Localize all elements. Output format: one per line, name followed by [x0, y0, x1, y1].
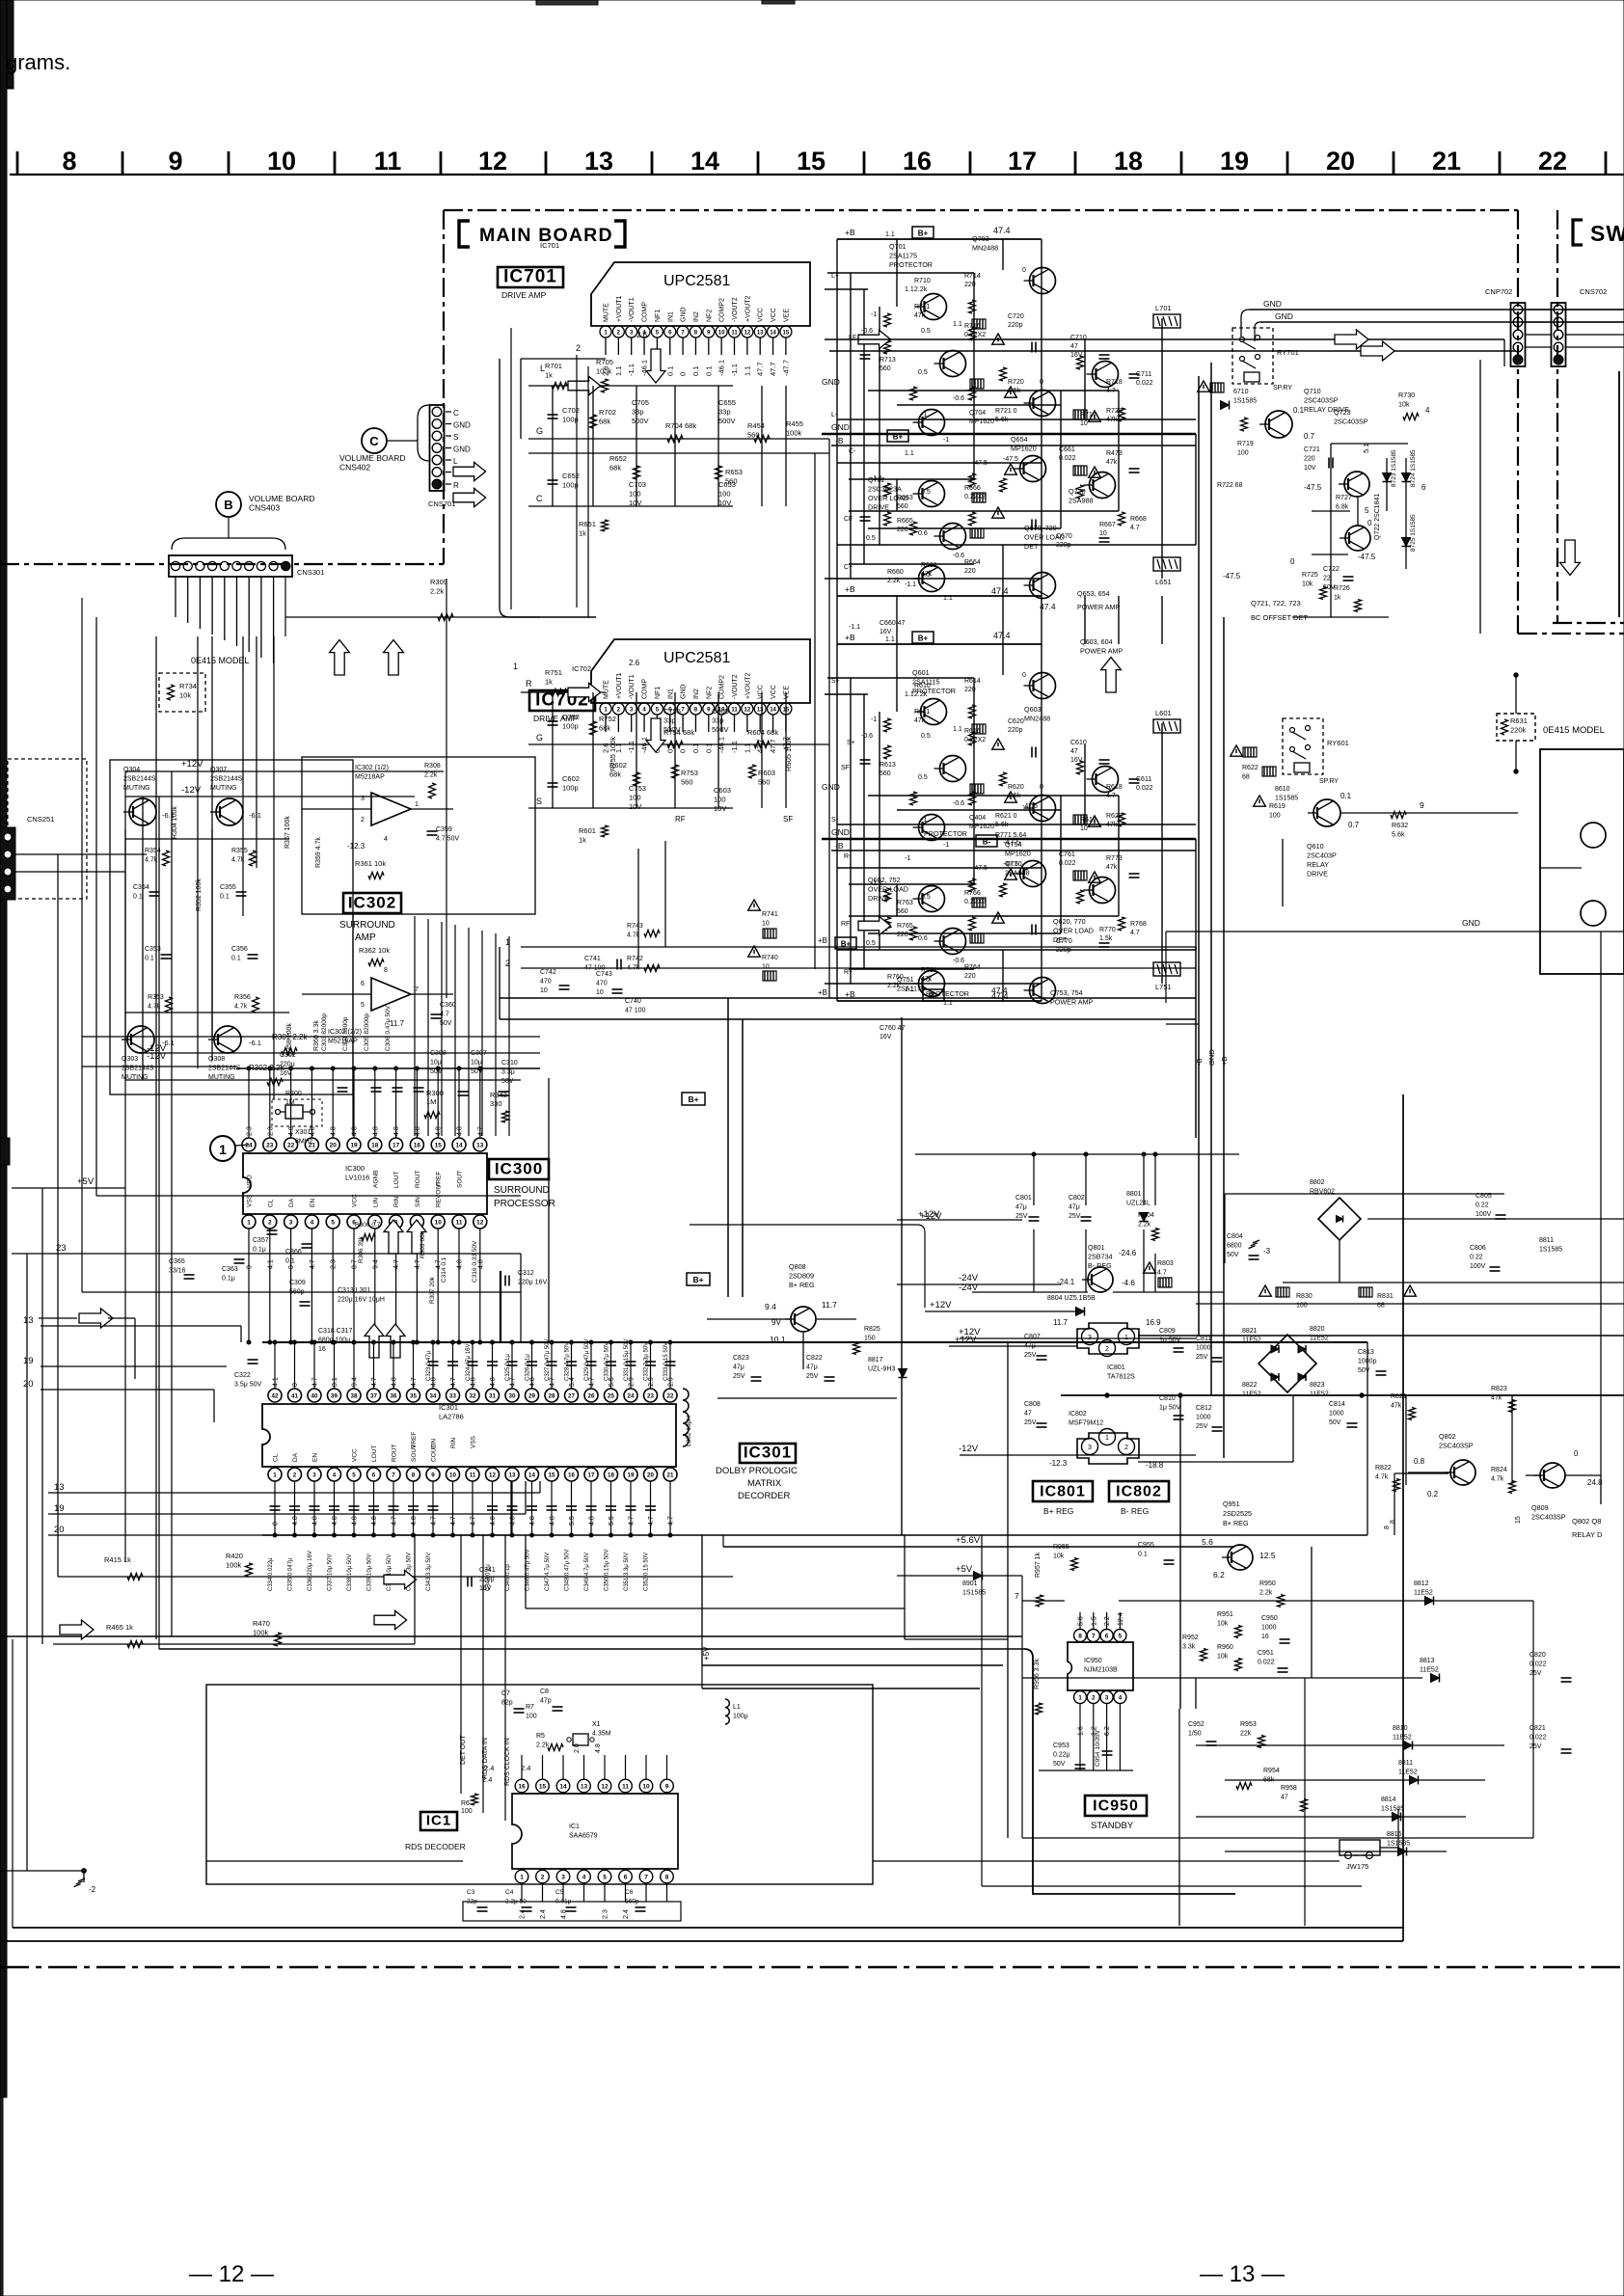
svg-text:VOLUME BOARD: VOLUME BOARD	[249, 494, 315, 503]
svg-text:4: 4	[384, 836, 388, 843]
svg-text:50V: 50V	[1227, 1252, 1239, 1258]
svg-text:15: 15	[797, 147, 826, 176]
svg-text:8724 1S1585: 8724 1S1585	[1410, 449, 1417, 487]
svg-text:6: 6	[361, 981, 365, 987]
svg-text:4.7: 4.7	[431, 1516, 438, 1526]
svg-text:0.22X2: 0.22X2	[964, 737, 986, 743]
svg-text:47p: 47p	[540, 1698, 552, 1705]
svg-text:28: 28	[549, 1392, 555, 1399]
svg-text:MUTE: MUTE	[604, 680, 610, 699]
svg-text:MN2488: MN2488	[1024, 715, 1050, 723]
svg-text:UPC2581: UPC2581	[663, 273, 730, 289]
svg-text:C338 10μ 50V: C338 10μ 50V	[347, 1554, 353, 1591]
svg-text:C721: C721	[1304, 446, 1320, 453]
svg-text:-0.6: -0.6	[953, 800, 964, 807]
svg-text:9.4: 9.4	[765, 1302, 776, 1311]
svg-text:R622: R622	[1242, 765, 1259, 771]
svg-text:16: 16	[318, 1346, 326, 1353]
svg-text:6710: 6710	[1233, 389, 1249, 395]
svg-text:5.1: 5.1	[1362, 444, 1370, 453]
svg-text:4.8: 4.8	[589, 1516, 596, 1526]
svg-text:12: 12	[744, 331, 751, 337]
svg-text:10: 10	[718, 331, 725, 337]
svg-text:C339 10μ 50V: C339 10μ 50V	[367, 1554, 373, 1591]
svg-text:C952: C952	[1188, 1721, 1204, 1728]
svg-text:10: 10	[267, 147, 296, 176]
svg-text:C822: C822	[806, 1355, 823, 1362]
svg-text:R952: R952	[1182, 1634, 1199, 1641]
svg-text:R355: R355	[231, 848, 248, 854]
svg-text:R306 39k: R306 39k	[358, 1235, 365, 1263]
svg-text:6: 6	[1421, 483, 1426, 492]
svg-text:R722 68: R722 68	[1217, 482, 1243, 489]
svg-text:R713: R713	[880, 357, 896, 364]
svg-text:R743: R743	[627, 923, 643, 930]
svg-text:B+: B+	[918, 230, 929, 238]
svg-text:8812: 8812	[1414, 1580, 1429, 1587]
svg-text:4.7: 4.7	[310, 1259, 316, 1269]
svg-text:C951: C951	[1258, 1650, 1274, 1657]
svg-text:1M: 1M	[426, 1097, 436, 1106]
svg-text:1: 1	[520, 1875, 524, 1881]
svg-text:PROTECTOR: PROTECTOR	[889, 260, 933, 269]
svg-text:25V: 25V	[1015, 1213, 1028, 1220]
svg-text:Q802: Q802	[1439, 1432, 1456, 1441]
svg-text:1S1585: 1S1585	[1233, 398, 1257, 405]
svg-text:R308: R308	[424, 763, 441, 770]
svg-text:4.7k: 4.7k	[234, 1004, 248, 1011]
svg-text:68k: 68k	[609, 464, 621, 473]
svg-text:1μ 50V: 1μ 50V	[1159, 1405, 1181, 1412]
svg-text:C: C	[369, 434, 379, 448]
svg-text:-47.5: -47.5	[1022, 803, 1038, 810]
svg-text:-0.6: -0.6	[861, 733, 873, 740]
svg-text:2SC403SP: 2SC403SP	[1531, 1513, 1566, 1522]
svg-text:Q703: Q703	[972, 234, 989, 243]
svg-text:R357 100k: R357 100k	[284, 816, 291, 849]
svg-text:7: 7	[1015, 1591, 1019, 1601]
svg-text:16: 16	[518, 1784, 526, 1791]
svg-text:R360 3.3k: R360 3.3k	[313, 1020, 320, 1051]
svg-text:47 100: 47 100	[625, 1008, 646, 1014]
svg-text:IC950: IC950	[1093, 1798, 1139, 1815]
svg-text:4: 4	[311, 1219, 314, 1226]
svg-text:JW175: JW175	[1346, 1862, 1368, 1871]
svg-text:R760: R760	[887, 974, 904, 981]
svg-text:C753: C753	[629, 784, 646, 793]
svg-text:C711: C711	[1136, 371, 1151, 378]
svg-text:-1: -1	[871, 311, 877, 318]
svg-text:R603: R603	[758, 769, 775, 777]
svg-text:5: 5	[361, 1002, 365, 1009]
svg-text:R721 0: R721 0	[995, 408, 1017, 415]
svg-text:0: 0	[273, 1522, 280, 1526]
svg-text:GND: GND	[822, 377, 840, 387]
svg-text:0.022: 0.022	[1529, 1661, 1547, 1668]
svg-text:2.2k: 2.2k	[887, 983, 901, 989]
svg-text:+VOUT2: +VOUT2	[744, 295, 751, 322]
svg-text:LIN: LIN	[431, 1439, 438, 1448]
svg-text:CNP702: CNP702	[1485, 287, 1512, 296]
svg-text:GND: GND	[453, 446, 471, 454]
svg-text:8723 1S1585: 8723 1S1585	[1391, 449, 1397, 487]
svg-text:1000: 1000	[1196, 1415, 1211, 1421]
svg-text:33p: 33p	[712, 716, 724, 725]
svg-text:IC950: IC950	[1084, 1658, 1102, 1664]
svg-text:PROTECTOR: PROTECTOR	[924, 829, 967, 838]
svg-text:R309: R309	[430, 578, 447, 586]
svg-text:2.2k: 2.2k	[914, 286, 928, 293]
svg-text:0.1: 0.1	[1138, 1552, 1148, 1558]
svg-text:47.7: 47.7	[769, 362, 777, 376]
svg-text:47.4: 47.4	[991, 986, 1008, 995]
svg-text:4.8: 4.8	[331, 1126, 338, 1136]
svg-text:220: 220	[964, 568, 976, 575]
svg-text:C808: C808	[1024, 1401, 1041, 1408]
svg-text:4.7: 4.7	[450, 1377, 457, 1387]
svg-text:8815: 8815	[1387, 1831, 1402, 1838]
svg-text:B+: B+	[918, 635, 929, 643]
svg-text:B- REG: B- REG	[1121, 1506, 1149, 1516]
svg-text:R618: R618	[1106, 784, 1123, 791]
svg-text:6: 6	[1105, 1634, 1109, 1640]
svg-text:C337 10μ 50V: C337 10μ 50V	[328, 1554, 334, 1591]
svg-text:R720: R720	[1008, 379, 1024, 386]
svg-text:2SB2144S: 2SB2144S	[210, 776, 243, 783]
svg-text:1.1: 1.1	[905, 286, 914, 293]
svg-text:C741: C741	[584, 956, 601, 962]
svg-text:47μ: 47μ	[1069, 1204, 1080, 1211]
svg-text:22p: 22p	[467, 1899, 477, 1905]
svg-text:C: C	[453, 409, 459, 418]
svg-text:2SC3623A: 2SC3623A	[868, 485, 902, 494]
svg-text:4.8: 4.8	[371, 1516, 378, 1526]
svg-text:11E52: 11E52	[1414, 1590, 1433, 1597]
svg-text:C323 0.47μ: C323 0.47μ	[426, 1350, 432, 1381]
svg-text:CL: CL	[267, 1199, 274, 1207]
svg-text:C345 0.1μ: C345 0.1μ	[505, 1564, 511, 1591]
svg-text:LV1016: LV1016	[345, 1174, 369, 1182]
svg-text:0: 0	[1574, 1449, 1579, 1458]
svg-text:0.22μ: 0.22μ	[1053, 1752, 1070, 1759]
svg-text:18: 18	[1114, 147, 1143, 176]
svg-text:CL: CL	[273, 1453, 280, 1462]
svg-text:470: 470	[596, 981, 608, 987]
svg-text:220: 220	[897, 527, 908, 533]
svg-text:-0.6: -0.6	[861, 328, 873, 335]
svg-text:DRIVE AMP: DRIVE AMP	[501, 290, 547, 300]
svg-text:— 13 —: — 13 —	[1200, 2261, 1285, 2287]
svg-text:68k: 68k	[599, 724, 610, 733]
svg-text:4.7: 4.7	[415, 1259, 421, 1269]
svg-text:Q653, 654: Q653, 654	[1077, 589, 1110, 598]
svg-text:R667: R667	[1099, 522, 1116, 528]
svg-text:R605 100k: R605 100k	[784, 736, 793, 771]
svg-text:C955: C955	[1138, 1542, 1154, 1549]
svg-text:13: 13	[581, 1784, 588, 1791]
svg-text:4.7: 4.7	[1157, 1270, 1167, 1277]
svg-text:5: 5	[331, 1219, 335, 1226]
svg-text:+12V: +12V	[955, 1335, 977, 1345]
svg-text:1000: 1000	[1329, 1411, 1344, 1418]
svg-text:1: 1	[415, 801, 419, 808]
svg-text:C7: C7	[501, 1690, 510, 1697]
svg-text:C743: C743	[596, 971, 612, 978]
svg-text:R958: R958	[1281, 1785, 1297, 1792]
svg-text:IC1: IC1	[569, 1823, 580, 1830]
svg-text:47.4: 47.4	[993, 631, 1011, 640]
svg-text:1: 1	[1124, 1335, 1128, 1341]
svg-text:33p: 33p	[718, 408, 731, 417]
svg-text:C310: C310	[501, 1060, 518, 1067]
svg-text:C307: C307	[471, 1050, 487, 1057]
svg-text:14: 14	[770, 708, 776, 714]
svg-text:R665: R665	[897, 518, 913, 525]
svg-text:0.22X2: 0.22X2	[964, 494, 986, 500]
svg-text:DA: DA	[292, 1452, 299, 1462]
svg-text:R755 100k: R755 100k	[609, 736, 617, 771]
svg-text:C340 10μ 50V: C340 10μ 50V	[387, 1554, 392, 1591]
svg-text:R: R	[453, 481, 459, 490]
svg-text:19: 19	[1220, 147, 1249, 176]
svg-text:0: 0	[1040, 379, 1043, 386]
svg-text:R420: R420	[226, 1552, 243, 1560]
svg-text:0: 0	[247, 1265, 254, 1269]
svg-text:L1: L1	[733, 1704, 741, 1711]
svg-text:R773: R773	[1106, 855, 1123, 862]
svg-text:220: 220	[1304, 456, 1315, 463]
svg-text:Q304: Q304	[123, 767, 140, 773]
svg-text:8822: 8822	[1242, 1382, 1258, 1389]
svg-text:R356: R356	[234, 994, 251, 1001]
svg-text:R951: R951	[1217, 1611, 1233, 1618]
svg-text:RF: RF	[675, 815, 686, 824]
svg-text:11: 11	[731, 708, 738, 714]
svg-text:Q809: Q809	[1531, 1503, 1549, 1512]
svg-text:0.5: 0.5	[866, 940, 876, 947]
svg-text:33: 33	[449, 1392, 456, 1399]
svg-text:68k: 68k	[599, 418, 610, 426]
svg-text:10: 10	[596, 989, 604, 996]
svg-text:2SB734: 2SB734	[1088, 1253, 1113, 1261]
svg-text:COMP2: COMP2	[719, 675, 726, 699]
svg-text:L601: L601	[1155, 709, 1172, 717]
svg-text:41: 41	[291, 1392, 298, 1399]
svg-text:R352 100k: R352 100k	[196, 878, 203, 911]
svg-text:RELAY: RELAY	[1307, 860, 1329, 869]
svg-text:G: G	[536, 733, 543, 743]
svg-text:8811: 8811	[1398, 1760, 1413, 1767]
svg-text:220μ 16V: 220μ 16V	[518, 1280, 547, 1286]
svg-text:2.4: 2.4	[540, 1909, 547, 1919]
svg-text:C348 0.47μ 50V: C348 0.47μ 50V	[565, 1550, 571, 1592]
svg-text:C329 0.47μ 50V: C329 0.47μ 50V	[584, 1339, 590, 1382]
svg-text:10: 10	[642, 1784, 650, 1791]
svg-text:R823: R823	[1491, 1386, 1507, 1392]
svg-text:1.1: 1.1	[905, 450, 914, 457]
svg-text:0.5: 0.5	[918, 774, 928, 781]
svg-text:560: 560	[747, 431, 760, 440]
svg-text:-1.1: -1.1	[627, 364, 636, 376]
svg-text:R960: R960	[1217, 1644, 1233, 1651]
svg-text:MATRIX: MATRIX	[747, 1478, 782, 1489]
svg-text:C325 0.1μ: C325 0.1μ	[505, 1354, 511, 1381]
svg-text:-6.1: -6.1	[162, 811, 175, 820]
svg-text:12.4: 12.4	[1118, 1612, 1124, 1626]
svg-text:1.5k: 1.5k	[1008, 793, 1021, 799]
svg-text:2.3: 2.3	[267, 1126, 274, 1136]
svg-text:C752: C752	[562, 713, 580, 721]
svg-text:Q720: Q720	[1069, 487, 1086, 496]
svg-text:VREF: VREF	[411, 1432, 418, 1448]
svg-text:VCC: VCC	[352, 1448, 359, 1462]
svg-text:IC300: IC300	[495, 1160, 543, 1178]
svg-text:Q307: Q307	[210, 767, 227, 773]
svg-text:0.1: 0.1	[704, 366, 713, 376]
svg-text:220p: 220p	[1008, 727, 1023, 734]
svg-text:1k: 1k	[1334, 595, 1341, 602]
svg-text:C813: C813	[1358, 1349, 1374, 1356]
svg-text:R831: R831	[1377, 1293, 1394, 1300]
svg-text:3.5μ 50V: 3.5μ 50V	[234, 1382, 261, 1389]
svg-text:IC301: IC301	[439, 1403, 458, 1412]
svg-text:47k: 47k	[1391, 1403, 1402, 1410]
svg-text:16V: 16V	[880, 1034, 892, 1040]
svg-text:C5: C5	[555, 1889, 564, 1896]
svg-text:2.2k: 2.2k	[424, 772, 438, 779]
svg-text:C356: C356	[231, 946, 248, 953]
svg-text:R753: R753	[681, 769, 698, 777]
svg-text:6: 6	[372, 1472, 376, 1478]
svg-text:100p: 100p	[562, 481, 579, 490]
svg-text:470: 470	[540, 979, 552, 986]
svg-text:C357: C357	[253, 1237, 269, 1244]
svg-text:-1.1: -1.1	[871, 880, 882, 887]
svg-text:MUTE: MUTE	[604, 303, 610, 322]
svg-text:LA2786: LA2786	[439, 1413, 464, 1421]
svg-text:VEE: VEE	[783, 686, 790, 699]
svg-text:-1.1: -1.1	[730, 741, 739, 753]
svg-text:2.3: 2.3	[603, 1909, 609, 1919]
svg-text:-1.1: -1.1	[871, 475, 882, 482]
svg-text:27: 27	[568, 1392, 575, 1399]
svg-text:2.2k: 2.2k	[887, 578, 901, 584]
svg-text:C306 0.47μ 50V: C306 0.47μ 50V	[385, 1005, 392, 1051]
svg-text:C802: C802	[1069, 1195, 1085, 1202]
svg-text:C950: C950	[1261, 1615, 1278, 1622]
svg-text:10: 10	[449, 1472, 456, 1478]
svg-text:-46.1: -46.1	[640, 360, 649, 376]
svg-text:C322: C322	[234, 1372, 251, 1379]
svg-text:-6.1: -6.1	[249, 811, 261, 820]
svg-text:SW: SW	[1590, 221, 1624, 246]
svg-text:-1.1: -1.1	[627, 741, 636, 753]
svg-text:220p: 220p	[1056, 542, 1071, 549]
svg-text:S+: S+	[847, 740, 855, 746]
svg-text:8817: 8817	[868, 1357, 883, 1364]
svg-text:grams.: grams.	[6, 50, 70, 74]
svg-text:-B: -B	[835, 436, 844, 446]
svg-text:DRIVE: DRIVE	[868, 503, 889, 512]
svg-text:OVER LOAD: OVER LOAD	[1053, 927, 1094, 935]
svg-text:42: 42	[272, 1392, 279, 1399]
svg-text:31: 31	[489, 1392, 496, 1399]
svg-text:100k: 100k	[596, 367, 612, 376]
svg-text:VEE: VEE	[783, 309, 790, 322]
svg-text:0.5: 0.5	[866, 535, 876, 542]
svg-text:C351 3.3μ 50V: C351 3.3μ 50V	[624, 1553, 630, 1591]
svg-text:IC302 (1/2): IC302 (1/2)	[355, 765, 389, 771]
svg-text:10: 10	[540, 987, 548, 994]
svg-text:R734: R734	[179, 682, 197, 690]
svg-text:C954 10/35V: C954 10/35V	[1095, 1729, 1101, 1767]
svg-text:2.0: 2.0	[574, 1743, 581, 1753]
svg-text:0.022: 0.022	[1136, 785, 1153, 792]
svg-text:C331 0.15μ 50V: C331 0.15μ 50V	[624, 1339, 630, 1382]
svg-text:68: 68	[1242, 774, 1250, 781]
svg-text:R362 10k: R362 10k	[359, 946, 390, 955]
svg-text:C316 0.33 50V: C316 0.33 50V	[472, 1240, 478, 1283]
svg-text:VCC: VCC	[758, 308, 765, 322]
svg-text:L-: L-	[831, 412, 838, 419]
svg-text:2: 2	[1105, 1346, 1109, 1353]
svg-text:1k: 1k	[579, 529, 586, 538]
svg-text:35: 35	[410, 1392, 417, 1399]
svg-text:100p: 100p	[562, 416, 579, 424]
svg-text:14: 14	[559, 1784, 567, 1791]
svg-text:2: 2	[361, 817, 365, 824]
svg-text:22: 22	[1538, 147, 1567, 176]
svg-text:C8: C8	[540, 1688, 549, 1695]
svg-text:36: 36	[391, 1392, 397, 1399]
svg-text:2.6: 2.6	[636, 331, 648, 339]
svg-text:16V: 16V	[880, 629, 892, 635]
svg-text:SP.RY: SP.RY	[1319, 778, 1339, 785]
svg-text:R+: R+	[844, 969, 853, 976]
svg-text:S: S	[536, 797, 542, 806]
svg-text:38: 38	[351, 1392, 358, 1399]
svg-text:0.22X2: 0.22X2	[964, 899, 986, 905]
svg-text:500V: 500V	[712, 725, 729, 734]
svg-text:0.1: 0.1	[133, 894, 143, 901]
svg-text:4.8: 4.8	[352, 1126, 359, 1136]
svg-text:8: 8	[62, 147, 76, 176]
svg-text:R632: R632	[1392, 821, 1408, 829]
svg-text:4.7 50V: 4.7 50V	[436, 836, 459, 843]
svg-text:47k: 47k	[1106, 864, 1118, 871]
svg-text:S: S	[453, 433, 458, 442]
svg-text:1.5: 1.5	[1091, 1616, 1097, 1626]
svg-text:UPC2581: UPC2581	[663, 650, 730, 666]
svg-text:10.1: 10.1	[770, 1335, 786, 1344]
svg-text:MSF79M12: MSF79M12	[1069, 1420, 1103, 1427]
svg-text:-1.1: -1.1	[730, 364, 739, 376]
svg-text:IN1: IN1	[667, 689, 674, 699]
svg-text:0.5: 0.5	[921, 894, 931, 901]
svg-text:6.8k: 6.8k	[1336, 504, 1349, 511]
svg-text:C335 0.047μ: C335 0.047μ	[288, 1557, 294, 1591]
svg-text:1S1585: 1S1585	[1381, 1806, 1404, 1813]
svg-text:-1: -1	[921, 412, 927, 419]
svg-text:R719: R719	[1237, 441, 1254, 447]
svg-text:4.7k: 4.7k	[231, 857, 245, 864]
svg-text:MP1620: MP1620	[969, 824, 994, 830]
svg-text:4: 4	[333, 1472, 337, 1478]
svg-text:0.022: 0.022	[1258, 1660, 1275, 1666]
svg-text:R616: R616	[964, 728, 981, 735]
svg-text:POWER AMP: POWER AMP	[1050, 998, 1094, 1007]
svg-text:500V: 500V	[718, 417, 736, 425]
